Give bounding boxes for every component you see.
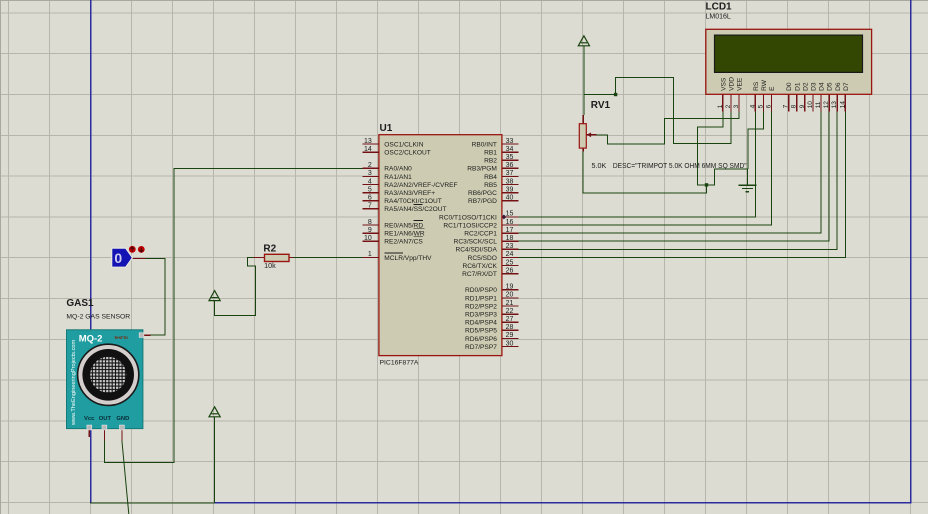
svg-text:RC4/SDI/SDA: RC4/SDI/SDA — [455, 247, 497, 254]
svg-text:9: 9 — [368, 227, 372, 234]
svg-text:RD7/PSP7: RD7/PSP7 — [465, 344, 497, 351]
LCD1 pin 8 D1 — [791, 82, 802, 111]
svg-text:RW: RW — [761, 79, 768, 91]
svg-text:25: 25 — [506, 259, 514, 266]
wire U1 RC5 to LCD D7 pin 14 — [518, 111, 845, 257]
svg-text:29: 29 — [506, 332, 514, 339]
U1 pin 3 RA1/AN1 — [362, 170, 412, 181]
svg-text:MQ-2 GAS SENSOR: MQ-2 GAS SENSOR — [66, 314, 130, 321]
svg-text:LCD1: LCD1 — [706, 2, 733, 13]
svg-text:www.TheEngineeringProjects.com: www.TheEngineeringProjects.com — [71, 339, 77, 426]
svg-text:10: 10 — [807, 101, 814, 109]
U1 pin 19 RD0/PSP0 — [465, 284, 518, 295]
wire U1 RC3 to LCD D5 pin 12 — [518, 111, 829, 241]
U1 pin 24 RC5/SDO — [468, 251, 519, 262]
svg-text:OUT: OUT — [99, 416, 112, 422]
wire RV1 bottom to ground net — [583, 152, 706, 194]
junction dot ground net — [705, 183, 708, 186]
wire GAS1 Vcc bottom rail to VCC arrow — [90, 502, 214, 504]
U1 pin 25 RC6/TX/CK — [462, 259, 518, 270]
U1 pin 1 MCLR/Vpp/THV — [362, 251, 432, 262]
svg-text:4: 4 — [368, 178, 372, 185]
U1 overlines for active-low pins — [384, 204, 424, 253]
svg-text:OSC2/CLKOUT: OSC2/CLKOUT — [384, 150, 431, 157]
U1 pin 13 OSC1/CLKIN — [362, 138, 423, 149]
wire U1 RC1 to LCD E pin 6 — [518, 111, 771, 225]
U1 pin 21 RD2/PSP2 — [465, 300, 518, 311]
svg-text:DESC="TRIMPOT 5.0K OHM 6MM SQ: DESC="TRIMPOT 5.0K OHM 6MM SQ SMD" — [613, 161, 747, 170]
svg-text:8: 8 — [791, 104, 798, 108]
svg-text:RA2/AN2/VREF-/CVREF: RA2/AN2/VREF-/CVREF — [384, 182, 457, 189]
wire R2 right to U1 MCLR pin 1 — [293, 257, 363, 259]
svg-text:10k: 10k — [264, 261, 276, 270]
svg-text:12: 12 — [823, 101, 830, 109]
svg-text:GAS1: GAS1 — [66, 298, 94, 309]
U1 pin 20 RD1/PSP1 — [465, 292, 518, 303]
U1 pin 35 RB2 — [484, 154, 518, 165]
junction dot VCC branch corner — [614, 93, 617, 96]
svg-text:36: 36 — [506, 162, 514, 169]
svg-text:RC0/T1OSO/T1CKI: RC0/T1OSO/T1CKI — [439, 214, 497, 221]
svg-text:24: 24 — [506, 251, 514, 258]
U1 pin 14 OSC2/CLKOUT — [362, 146, 430, 157]
U1 pin 40 RB7/PGD — [468, 195, 518, 206]
svg-text:D3: D3 — [811, 82, 818, 91]
U1 pin 6 RA4/T0CKI/C1OUT — [362, 195, 441, 206]
svg-text:D4: D4 — [819, 82, 826, 91]
wire GAS1 GND diagonal off-sheet — [122, 441, 129, 514]
wire VCC stem to RV1 top — [583, 46, 585, 115]
svg-text:28: 28 — [506, 324, 514, 331]
svg-text:23: 23 — [506, 243, 514, 250]
svg-text:Vcc: Vcc — [84, 416, 95, 422]
svg-text:OSC1/CLKIN: OSC1/CLKIN — [384, 141, 423, 148]
power symbol VCC (feeds R2) — [209, 291, 220, 301]
LCD1 pin 6 E — [766, 86, 777, 112]
svg-text:U1: U1 — [380, 123, 393, 134]
svg-text:19: 19 — [506, 284, 514, 291]
svg-text:VSS: VSS — [720, 77, 727, 91]
svg-text:1: 1 — [717, 104, 724, 108]
U1 pin 15 RC0/T1OSO/T1CKI — [439, 211, 518, 222]
U1 pin 34 RB1 — [484, 146, 518, 157]
LCD LCD1 LM016L body — [706, 29, 872, 94]
svg-text:11: 11 — [815, 101, 822, 108]
LCD1 pin 5 RW — [757, 79, 768, 111]
U1 pin 26 RC7/RX/DT — [462, 267, 518, 278]
svg-text:37: 37 — [506, 170, 514, 177]
svg-text:RC3/SCK/SCL: RC3/SCK/SCL — [454, 239, 498, 246]
svg-text:RB2: RB2 — [484, 158, 497, 165]
svg-text:RS: RS — [753, 81, 760, 91]
svg-text:RC5/SDO: RC5/SDO — [468, 255, 497, 262]
svg-text:D0: D0 — [786, 82, 793, 91]
svg-text:RA5/AN4/SS/C2OUT: RA5/AN4/SS/C2OUT — [384, 206, 446, 213]
U1 pin 27 RD4/PSP4 — [465, 316, 518, 327]
svg-text:RB6/PGC: RB6/PGC — [468, 190, 497, 197]
wire RV1 wiper to LCD VEE pin 3 — [597, 111, 740, 143]
U1 pin 8 RE0/AN5/RD — [362, 219, 423, 230]
svg-text:RB3/PGM: RB3/PGM — [467, 166, 497, 173]
svg-text:E: E — [769, 86, 776, 91]
svg-text:RA1/AN1: RA1/AN1 — [384, 174, 412, 181]
svg-text:0: 0 — [114, 250, 122, 266]
svg-text:RB0/INT: RB0/INT — [472, 141, 497, 148]
U1 pin 2 RA0/AN0 — [362, 162, 412, 173]
U1 pin 37 RB4 — [484, 170, 518, 181]
U1 pin 38 RB5 — [484, 178, 518, 189]
power symbol VCC (feeds GAS1 Vcc) — [209, 407, 220, 417]
wire VCC arrow stem for GAS1 supply — [214, 417, 216, 503]
resistor R2 body — [254, 254, 293, 261]
svg-text:10: 10 — [364, 235, 372, 242]
LCD1 pin 10 D3 — [807, 82, 818, 111]
U1 pin 29 RD6/PSP6 — [465, 332, 518, 343]
svg-text:D6: D6 — [835, 82, 842, 91]
svg-text:VDD: VDD — [729, 77, 736, 91]
svg-text:RD3/PSP3: RD3/PSP3 — [465, 312, 497, 319]
svg-text:D7: D7 — [843, 82, 850, 91]
svg-text:D1: D1 — [794, 82, 801, 91]
svg-text:15: 15 — [506, 211, 514, 218]
U1 pin 28 RD5/PSP5 — [465, 324, 518, 335]
U1 pin 36 RB3/PGM — [467, 162, 518, 173]
svg-text:20: 20 — [506, 292, 514, 299]
LCD1 pin 12 D5 — [823, 82, 834, 111]
svg-text:PIC16F877A: PIC16F877A — [380, 360, 419, 367]
svg-text:RB1: RB1 — [484, 150, 497, 157]
svg-text:RA4/T0CKI/C1OUT: RA4/T0CKI/C1OUT — [384, 198, 442, 205]
U1 pin 16 RC1/T1OSI/CCP2 — [443, 219, 518, 230]
LCD1 screen — [715, 35, 863, 72]
svg-text:RB7/PGD: RB7/PGD — [468, 198, 497, 205]
LCD1 pin 3 VEE — [733, 77, 744, 111]
svg-text:40: 40 — [506, 195, 514, 202]
pin origin marker on U1 pin 15 — [501, 215, 506, 220]
svg-text:26: 26 — [506, 267, 514, 274]
LCD1 pin 7 D0 — [783, 82, 794, 111]
svg-text:14: 14 — [364, 146, 372, 153]
svg-text:13: 13 — [831, 101, 838, 109]
svg-text:38: 38 — [506, 178, 514, 185]
svg-text:D5: D5 — [827, 82, 834, 91]
svg-text:8: 8 — [368, 219, 372, 226]
LCD1 pin 2 VDD — [725, 77, 736, 112]
wire U1 RC2 to LCD D4 pin 11 — [518, 111, 821, 233]
wire GAS1 OUT to U1 RA0 pin 2 — [104, 168, 362, 462]
svg-text:22: 22 — [506, 308, 514, 315]
svg-text:RE2/AN7/CS: RE2/AN7/CS — [384, 239, 423, 246]
svg-text:RV1: RV1 — [591, 100, 611, 111]
svg-text:RC1/T1OSI/CCP2: RC1/T1OSI/CCP2 — [443, 222, 497, 229]
sheet border left edge redraw — [90, 0, 92, 503]
svg-text:RD5/PSP5: RD5/PSP5 — [465, 328, 497, 335]
svg-text:MQ-2: MQ-2 — [79, 334, 103, 345]
svg-text:7: 7 — [368, 203, 372, 210]
svg-text:6: 6 — [368, 195, 372, 202]
LCD1 pin 14 D7 — [839, 82, 850, 111]
svg-text:RC7/RX/DT: RC7/RX/DT — [462, 271, 497, 278]
svg-text:13: 13 — [364, 138, 372, 145]
svg-text:7: 7 — [783, 104, 790, 108]
U1 pin 10 RE2/AN7/CS — [362, 235, 423, 246]
svg-text:RD4/PSP4: RD4/PSP4 — [465, 320, 497, 327]
svg-text:27: 27 — [506, 316, 514, 323]
svg-text:LM016L: LM016L — [706, 14, 731, 21]
U1 pin 7 RA5/AN4/SS/C2OUT — [362, 203, 446, 214]
wire R2 left to VCC arrow — [215, 258, 256, 316]
svg-text:RC2/CCP1: RC2/CCP1 — [464, 231, 497, 238]
wire logic toggle to GAS1 test pin — [146, 258, 165, 335]
U1 pin 17 RC2/CCP1 — [464, 227, 518, 238]
microcontroller U1 PIC16F877A body — [379, 135, 502, 356]
U1 pin 23 RC4/SDI/SDA — [455, 243, 518, 254]
U1 pin 18 RC3/SCK/SCL — [454, 235, 519, 246]
svg-text:3: 3 — [368, 170, 372, 177]
svg-text:5: 5 — [368, 186, 372, 193]
svg-text:17: 17 — [506, 227, 514, 234]
svg-text:2: 2 — [725, 104, 732, 108]
U1 pin 5 RA3/AN3/VREF+ — [362, 186, 435, 197]
wire VCC branch to LCD VDD pin 2 — [584, 78, 731, 144]
svg-text:RB4: RB4 — [484, 174, 497, 181]
svg-text:RB5: RB5 — [484, 182, 497, 189]
svg-text:5: 5 — [757, 104, 764, 108]
svg-text:34: 34 — [506, 146, 514, 153]
svg-text:33: 33 — [506, 138, 514, 145]
LCD1 pin 4 RS — [749, 81, 760, 111]
U1 pin 9 RE1/AN6/WR — [362, 227, 424, 238]
LCD1 pin 11 D4 — [815, 82, 826, 111]
U1 pin 33 RB0/INT — [472, 138, 519, 149]
svg-text:4: 4 — [749, 104, 756, 108]
LCD1 pin 13 D6 — [831, 82, 842, 111]
svg-text:RD2/PSP2: RD2/PSP2 — [465, 303, 497, 310]
wire LCD VSS pin 1 to ground — [697, 111, 747, 184]
logic toggle up/down buttons — [129, 246, 145, 253]
svg-text:2: 2 — [368, 162, 372, 169]
wire U1 RC0 to LCD RS pin 4 — [518, 111, 755, 216]
gas sensor GAS1 MQ-2 body — [67, 330, 151, 441]
svg-text:9: 9 — [799, 104, 806, 108]
svg-text:VEE: VEE — [737, 77, 744, 91]
svg-text:RD1/PSP1: RD1/PSP1 — [465, 295, 497, 302]
ground symbol near LCD — [739, 169, 757, 192]
svg-text:RA3/AN3/VREF+: RA3/AN3/VREF+ — [384, 190, 435, 197]
svg-text:GND: GND — [116, 416, 129, 422]
U1 pin 22 RD3/PSP3 — [465, 308, 518, 319]
wire LCD RW pin 5 to ground — [748, 111, 763, 168]
U1 pin 39 RB6/PGC — [468, 186, 518, 197]
wire U1 RC4 to LCD D6 pin 13 — [518, 111, 837, 249]
U1 pin 4 RA2/AN2/VREF-/CVREF — [362, 178, 457, 189]
svg-text:MCLR/Vpp/THV: MCLR/Vpp/THV — [384, 255, 432, 262]
svg-text:18: 18 — [506, 235, 514, 242]
svg-text:30: 30 — [506, 340, 514, 347]
LCD1 pin 1 VSS — [717, 77, 728, 111]
svg-text:21: 21 — [506, 300, 514, 307]
svg-text:RC6/TX/CK: RC6/TX/CK — [462, 263, 497, 270]
svg-text:1: 1 — [368, 251, 372, 258]
svg-text:14: 14 — [839, 101, 846, 109]
power symbol VCC (top, feeds RV1/LCD VDD) — [578, 36, 589, 46]
svg-text:6: 6 — [766, 104, 773, 108]
svg-text:39: 39 — [506, 186, 514, 193]
svg-text:RD0/PSP0: RD0/PSP0 — [465, 287, 497, 294]
svg-text:16: 16 — [506, 219, 514, 226]
svg-text:D2: D2 — [802, 82, 809, 91]
wire GAS1 Vcc vertical (under sheet border) — [90, 436, 92, 503]
svg-text:5.0K: 5.0K — [592, 161, 607, 170]
svg-text:R2: R2 — [263, 244, 276, 255]
svg-text:RA0/AN0: RA0/AN0 — [384, 166, 412, 173]
U1 pin 30 RD7/PSP7 — [465, 340, 518, 351]
svg-text:35: 35 — [506, 154, 514, 161]
LCD1 pin 9 D2 — [799, 82, 810, 111]
trimpot RV1 body — [579, 115, 596, 152]
svg-text:3: 3 — [733, 104, 740, 108]
logic state toggle "0" — [112, 248, 146, 267]
svg-text:test'm: test'm — [115, 335, 128, 340]
svg-text:RD6/PSP6: RD6/PSP6 — [465, 336, 497, 343]
